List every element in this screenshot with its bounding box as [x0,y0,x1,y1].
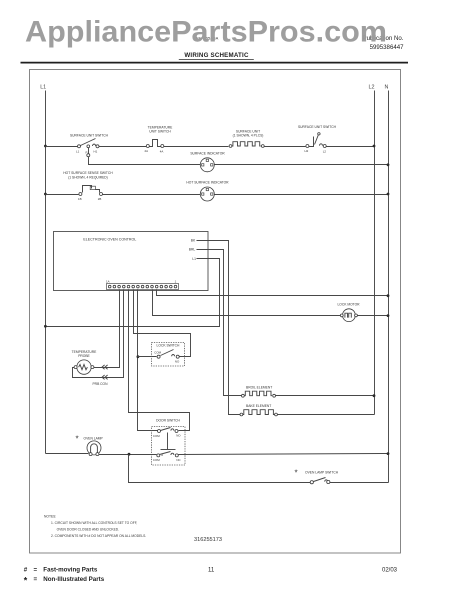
wire BK to bake riser [197,241,241,415]
svg-text:L1: L1 [192,257,196,261]
title underline [179,59,254,61]
svg-text:BRL: BRL [189,248,196,252]
svg-text:316255173: 316255173 [194,537,222,543]
wire bake to L2 [278,414,375,416]
node V2 lock switch junction [137,355,140,358]
svg-text:L2: L2 [323,149,327,153]
hot surface sense switch [78,186,103,201]
wire L1 bus [45,91,47,454]
svg-text:Non-Illustrated Parts: Non-Illustrated Parts [43,576,104,583]
wire lock motor to N [358,315,389,317]
wire row1 segment b [99,146,147,148]
node L1 row2 junction [44,193,47,196]
door switch linkage [167,433,169,450]
svg-text:NC: NC [176,458,180,462]
wire lamp switch branch [129,455,311,483]
svg-text:ELECTRONIC OVEN CONTROL: ELECTRONIC OVEN CONTROL [83,238,136,242]
wire L1 feed H2 [46,259,220,327]
svg-text:AppliancePartsPros.com: AppliancePartsPros.com [25,16,387,49]
svg-text:N: N [385,85,389,91]
header rule [21,62,409,64]
wire row2 segment b [103,194,201,196]
surface unit switch SW2 [305,133,327,154]
svg-text:COM: COM [153,458,160,462]
wire door switch NC to N [179,454,389,455]
oven lamp switch S5 [310,478,330,484]
node row1 L2 junction [373,145,376,148]
svg-text:DOOR SWITCH: DOOR SWITCH [156,419,180,423]
wire N bus [388,91,390,483]
wire row1 segment c [164,146,229,148]
temperature unit switch [145,140,164,154]
svg-text:NO: NO [176,434,181,438]
svg-text:1A: 1A [106,280,110,284]
svg-text:(1 SHOWN, 4 REQUIRED): (1 SHOWN, 4 REQUIRED) [68,175,108,179]
svg-text:SURFACE UNIT SWITCH: SURFACE UNIT SWITCH [298,125,337,129]
connector lower PRB [102,375,108,379]
wire H3 lock switch NO feed [134,290,191,357]
notes text [44,515,146,538]
svg-text:11: 11 [208,567,215,573]
wire probe lower drop [73,290,124,378]
wire L2 bus [374,91,376,415]
hot surface indicator lamp [200,187,214,201]
bake element [240,410,277,416]
svg-text:LOCK MOTOR: LOCK MOTOR [337,303,360,307]
node lamp row N junction [387,452,390,455]
svg-text:SURFACE UNIT SWITCH: SURFACE UNIT SWITCH [70,134,109,138]
terminal circle on P drop [87,154,90,157]
svg-text:#: # [24,566,28,573]
svg-text:(1 SHOWN, 4 PLCS): (1 SHOWN, 4 PLCS) [233,134,264,138]
door switch pole1 [153,428,181,438]
wire row2 to N [215,194,389,196]
svg-text:*: * [24,576,28,586]
wire indicator row to N [215,164,389,166]
svg-text:PROBE: PROBE [78,354,90,358]
svg-text:*: * [76,435,79,444]
node lamp row junction [128,453,131,456]
lock motor M1 [340,309,357,322]
svg-text:=: = [34,576,38,583]
wire BRL to broil riser [197,250,242,396]
schematic frame [30,70,401,554]
svg-text:BROIL ELEMENT: BROIL ELEMENT [246,385,272,389]
surface indicator lamp [200,158,214,172]
svg-text:L1: L1 [40,85,46,91]
svg-text:COM: COM [154,350,161,354]
svg-text:*: * [295,469,298,478]
svg-text:BAKE ELEMENT: BAKE ELEMENT [246,404,271,408]
lock switch S3 [157,350,179,359]
temperature probe RT1 [74,360,94,374]
wire row B drop to lock motor [153,290,342,316]
door switch pole2 [153,452,181,463]
svg-text:1B: 1B [78,197,82,201]
svg-text:=: = [34,566,38,573]
svg-text:LOCK SWITCH: LOCK SWITCH [157,344,181,348]
wire row1 segment d [265,146,306,148]
wire lamp switch to N [330,482,389,484]
svg-text:PRB CON: PRB CON [92,382,108,386]
EOC terminal strip P1 [107,284,179,290]
svg-text:02/03: 02/03 [382,567,398,573]
oven lamp E1 [87,441,101,456]
svg-text:SURFACE INDICATOR: SURFACE INDICATOR [190,151,225,155]
node broil L2 junction [373,394,376,397]
wire row1 segment a [46,146,78,148]
wire lamp row to door switch [99,454,157,456]
svg-text:NO: NO [175,359,180,363]
svg-text:Fast-moving Parts: Fast-moving Parts [43,566,98,573]
svg-text:L1: L1 [76,150,80,154]
wire row A to N [157,290,389,296]
surface unit switch SW1 [76,139,99,155]
wire drop from P terminal [88,148,90,154]
wire broil to L2 [276,395,375,397]
connector upper PRB [102,365,108,369]
wire V2 common feed [138,290,158,431]
wire lock switch COM lead [138,356,157,358]
electronic oven control U1 box [54,232,209,291]
svg-text:H2: H2 [305,149,309,153]
svg-text:1. CIRCUIT SHOWN WITH ALL CON: 1. CIRCUIT SHOWN WITH ALL CONTROLS SET T… [51,521,137,525]
surface unit element [229,142,264,148]
wire row2 segment a [46,194,79,196]
svg-text:WIRING SCHEMATIC: WIRING SCHEMATIC [184,52,249,59]
node lock motor N junction [387,314,390,317]
svg-text:HOT SURFACE INDICATOR: HOT SURFACE INDICATOR [186,181,229,185]
svg-text:OVEN LAMP: OVEN LAMP [84,436,104,440]
svg-text:OVEN DOOR CLOSED AND UNLOCKED.: OVEN DOOR CLOSED AND UNLOCKED. [57,527,120,531]
wire lamp row west [46,453,89,455]
node row A N junction [387,294,390,297]
wire probe upper drop [94,290,120,368]
svg-text:UNIT SWITCH: UNIT SWITCH [149,130,171,134]
svg-text:L2: L2 [369,85,375,91]
svg-text:2B: 2B [98,197,102,201]
svg-text:2. COMPONENTS WITH # DO NOT: 2. COMPONENTS WITH # DO NOT APPEAR ON AL… [51,534,146,538]
node indicator N junction [387,163,390,166]
wire row1 segment e [327,146,375,148]
door switch box [152,427,186,466]
svg-text:COM: COM [153,434,160,438]
svg-text:NOTES:: NOTES: [44,515,56,519]
wire indicator row [89,157,201,165]
wire V1 door switch NO feed [129,290,190,431]
node L1 row1 junction [44,145,47,148]
svg-text:2A: 2A [145,149,149,153]
svg-text:4A: 4A [160,149,164,153]
lock switch box [152,343,185,367]
svg-text:H1: H1 [94,150,98,154]
broil element [242,391,276,397]
node row2 N junction [387,193,390,196]
svg-text:OVEN LAMP SWITCH: OVEN LAMP SWITCH [305,471,339,475]
node L1 H2 junction [44,325,47,328]
